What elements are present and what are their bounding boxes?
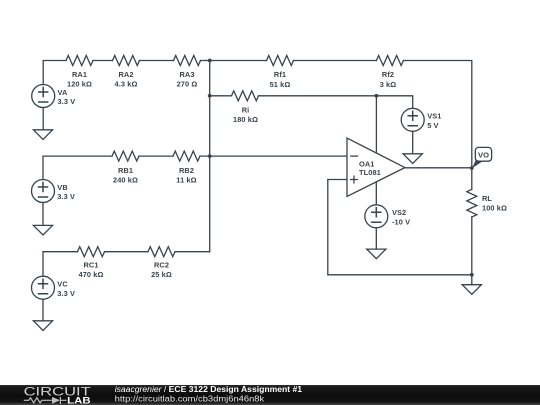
svg-text:VO: VO (478, 150, 489, 159)
wire VA stub to row A (43, 61, 66, 85)
footer bar (0, 385, 540, 405)
svg-text:VB: VB (57, 183, 67, 192)
wire non-inverting input loop (328, 180, 472, 275)
ground under VS1 (403, 154, 422, 164)
resistor RA1 (66, 56, 93, 66)
svg-text:RC1: RC1 (83, 261, 98, 270)
op-amp OA1 (347, 138, 405, 196)
resistor Rf2 (376, 56, 403, 66)
voltage source VA (32, 85, 55, 108)
svg-text:3.3 V: 3.3 V (58, 97, 76, 106)
svg-text:TL081: TL081 (359, 168, 381, 177)
wire RB2 to inverting input (200, 155, 347, 157)
node VO flag (472, 147, 492, 168)
svg-text:Ri: Ri (242, 106, 250, 115)
node ground junction (470, 273, 474, 277)
wire op-amp output (405, 167, 472, 169)
wire RC2 to bus (175, 251, 210, 253)
svg-text:270 Ω: 270 Ω (177, 79, 198, 88)
wire VA to ground (42, 108, 44, 130)
svg-text:120 kΩ: 120 kΩ (67, 79, 92, 88)
svg-text:RB1: RB1 (118, 166, 133, 175)
wire RB1 to RB2 (139, 155, 173, 157)
resistor RB1 (112, 151, 139, 161)
svg-text:Rf1: Rf1 (274, 70, 286, 79)
svg-text:3.3 V: 3.3 V (57, 289, 75, 298)
svg-text:VS2: VS2 (392, 208, 406, 217)
wire RC1 to RC2 (105, 251, 149, 253)
wire op-amp V+ pin (375, 96, 377, 153)
ground under VC (33, 321, 52, 331)
voltage source VS1 (401, 108, 424, 131)
ground under RL (462, 285, 481, 295)
node N1 junction (208, 59, 212, 63)
svg-text:100 kΩ: 100 kΩ (482, 204, 507, 213)
svg-text:isaacgrenier / ECE 3122 Design: isaacgrenier / ECE 3122 Design Assignmen… (115, 384, 303, 394)
logo resistor motif (24, 398, 52, 403)
svg-text:http://circuitlab.com/cb3dmj6n: http://circuitlab.com/cb3dmj6n46n8k (115, 393, 265, 403)
resistor RA2 (113, 56, 140, 66)
node N2 junction (375, 94, 379, 98)
ground under VA (33, 130, 52, 140)
wire RA1 to RA2 (93, 60, 113, 62)
logo diode motif (52, 397, 60, 404)
node N1b junction RI row (208, 94, 212, 98)
svg-text:3 kΩ: 3 kΩ (380, 80, 397, 89)
svg-text:RC2: RC2 (154, 261, 169, 270)
op-amp minus mark (351, 155, 358, 157)
svg-text:RL: RL (482, 194, 492, 203)
svg-text:4.3 kΩ: 4.3 kΩ (115, 79, 138, 88)
svg-text:Rf2: Rf2 (382, 70, 394, 79)
ground under VS2 (367, 249, 386, 259)
svg-text:LAB: LAB (67, 395, 90, 405)
svg-text:OA1: OA1 (359, 159, 375, 168)
wire RL to ground node (471, 217, 473, 275)
wire Rf1 to Rf2 (294, 60, 377, 62)
voltage source VS2 (365, 205, 388, 228)
svg-text:RA3: RA3 (179, 70, 194, 79)
wire inverting bus (209, 61, 211, 252)
svg-text:11 kΩ: 11 kΩ (176, 175, 196, 184)
wire RA2 to RA3 (140, 60, 174, 62)
node N1c junction RB row (208, 154, 212, 158)
svg-text:VC: VC (57, 280, 68, 289)
svg-text:25 kΩ: 25 kΩ (151, 270, 172, 279)
svg-text:240 kΩ: 240 kΩ (113, 175, 138, 184)
svg-text:3.3 V: 3.3 V (57, 192, 75, 201)
wire node N2 to VS1 (376, 96, 412, 109)
wire VS1 to ground (412, 131, 414, 154)
svg-text:-10 V: -10 V (392, 217, 410, 226)
svg-text:51 kΩ: 51 kΩ (270, 80, 291, 89)
voltage source VB (32, 180, 55, 203)
wire node N1 to Rf1 (210, 60, 267, 62)
resistor RC2 (148, 247, 175, 257)
resistor Rf1 (267, 56, 294, 66)
svg-text:RB2: RB2 (179, 166, 194, 175)
svg-text:RA1: RA1 (72, 70, 87, 79)
resistor RI (232, 91, 259, 101)
resistor RL (467, 189, 477, 217)
wire VB stub and row B to RB1 (43, 156, 112, 179)
wire bus to RI (210, 95, 232, 97)
wire op-amp V- pin (375, 182, 377, 205)
resistor RA3 (174, 56, 201, 66)
wire VB to ground (42, 203, 44, 226)
wire RI to node N2 (259, 95, 377, 97)
svg-text:5 V: 5 V (427, 121, 438, 130)
wire RA3 to node N1 (201, 60, 210, 62)
wire VC to ground (42, 299, 44, 321)
wire VS2 to ground (375, 228, 377, 249)
svg-text:VA: VA (58, 88, 68, 97)
wire output to RL (471, 168, 473, 189)
voltage source VC (32, 276, 55, 299)
svg-text:470 kΩ: 470 kΩ (78, 270, 103, 279)
wire ground stub bottom right (471, 275, 473, 285)
wire Rf2 to output node (403, 61, 471, 169)
svg-text:180 kΩ: 180 kΩ (233, 115, 258, 124)
node VO junction (470, 166, 474, 170)
svg-text:VS1: VS1 (427, 112, 441, 121)
resistor RB2 (173, 151, 200, 161)
svg-text:RA2: RA2 (118, 70, 133, 79)
ground under VB (33, 225, 52, 235)
op-amp plus mark (351, 176, 358, 183)
wire VC stub and row C to RC1 (43, 252, 78, 277)
resistor RC1 (78, 247, 105, 257)
